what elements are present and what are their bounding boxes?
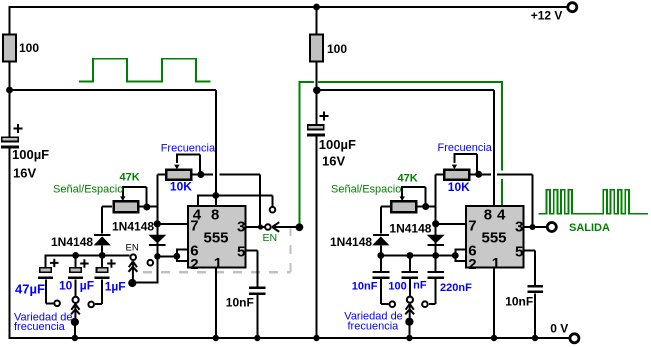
svg-text:10nF: 10nF	[352, 281, 378, 293]
potentiometer VR2 wiper arrowhead	[120, 196, 125, 201]
selector SW2 contact C7	[73, 297, 79, 303]
svg-text:47K: 47K	[120, 171, 140, 183]
wire: C6 leads	[45, 254, 53, 303]
junction node A left	[6, 87, 13, 94]
junction U1 pins 2-6 node	[173, 253, 180, 260]
svg-text:EN: EN	[126, 243, 139, 254]
wire: +12V top rail	[10, 6, 567, 8]
svg-text:5: 5	[515, 244, 523, 261]
junction VR2 wiper-terminal	[143, 204, 150, 211]
wire: U2 pin 1 to ground rail	[493, 268, 495, 338]
selector SW3 contact C10	[407, 297, 413, 303]
wire: pot VR2 wiper link	[122, 187, 147, 207]
junction C12 on ground rail	[532, 335, 538, 341]
svg-text:1µF: 1µF	[105, 279, 126, 293]
svg-text:frecuencia: frecuencia	[348, 320, 400, 332]
junction SW2 EN pivot	[128, 279, 136, 287]
junction EN blade pivot (green node)	[296, 223, 304, 231]
diode D2 1N4148	[148, 235, 166, 246]
wire: D1 lower lead	[101, 246, 103, 256]
svg-text:8: 8	[484, 206, 492, 223]
svg-text:1N4148: 1N4148	[389, 222, 431, 236]
svg-text:7: 7	[468, 218, 476, 235]
svg-text:220nF: 220nF	[440, 282, 472, 294]
wire: pot VR1 right lead to pin3 drop (hop over x=215.8)	[192, 175, 260, 228]
wire: C8 leads	[95, 255, 102, 304]
switch SW1a spare contact	[148, 260, 154, 266]
wire: timing capacitor bus C9 C10 C11	[381, 255, 456, 257]
svg-text:2: 2	[190, 256, 198, 273]
svg-text:Frecuencia: Frecuencia	[438, 142, 493, 154]
junction VR3 wiper-terminal	[475, 171, 482, 178]
svg-text:100: 100	[19, 41, 39, 55]
svg-text:1: 1	[492, 255, 500, 272]
junction D3/C9 on capacitor bus	[377, 252, 384, 259]
op-amp U1 555 timer body	[188, 206, 246, 268]
diode D3 1N4148	[372, 234, 389, 246]
wire: EN switch blade SW1b	[272, 222, 299, 232]
svg-text:frecuencia: frecuencia	[14, 321, 66, 333]
svg-text:100µF: 100µF	[319, 137, 356, 152]
wire: U1 pins 6 and 2 link	[157, 249, 188, 262]
wire: timing node vertical x=157 (pot VR1 left to D2 to switch pivot)	[132, 175, 157, 284]
resistor R2 100	[310, 35, 323, 62]
potentiometer VR2 47K body	[114, 201, 139, 212]
terminal 0V	[570, 334, 579, 343]
svg-text:5: 5	[237, 244, 245, 261]
switch SW1b throw contact (pins 4-8)	[270, 207, 276, 213]
wire: green link U1 pin3 to U2 pin4	[298, 81, 502, 227]
wire: left vertical rail lower (C1 to 0V rail)	[9, 148, 11, 339]
capacitor C1 100uF plates	[1, 137, 19, 148]
junction D1/C8 on capacitor bus	[99, 252, 106, 259]
selector SW2 contact C6	[54, 301, 60, 307]
wire: pot VR3 left lead and timing vertical x=435.7	[436, 174, 444, 255]
selector SW3 contact C11	[422, 301, 428, 307]
svg-text:1N4148: 1N4148	[330, 235, 372, 249]
wire: pot VR1 wiper link	[176, 155, 200, 175]
svg-text:SALIDA: SALIDA	[569, 222, 610, 234]
capacitor C12 10nF plates	[528, 285, 543, 293]
svg-text:555: 555	[482, 230, 507, 247]
selector SW2 arm arrow	[71, 304, 80, 322]
diode D1 1N4148	[94, 234, 111, 246]
wire: D3 lower lead	[380, 246, 382, 256]
wire: pot VR3 right lead to U2 pin3 drop (hops over x=493.8)	[470, 174, 533, 227]
capacitor C11 220nF plates	[427, 271, 444, 279]
svg-text:555: 555	[204, 230, 229, 247]
capacitor C6 polarity plus	[50, 259, 58, 267]
potentiometer VR3 10K body	[444, 170, 469, 180]
junction selector SW3 pivot	[405, 318, 413, 326]
wire: U1 pin 8 stub	[215, 196, 217, 207]
junction selector SW2 pivot	[71, 318, 79, 326]
switch SW1a EN contact	[130, 254, 136, 260]
terminal +12V	[568, 3, 577, 12]
wire: U1 pin 5 to C5	[246, 250, 258, 286]
capacitor C8 polarity plus	[107, 259, 115, 267]
junction U2 pin 7 node	[432, 220, 439, 227]
potentiometer VR1 wiper arrowhead	[174, 165, 179, 170]
wire: C11 leads	[429, 256, 436, 305]
svg-text:2: 2	[468, 256, 476, 273]
wire: U2 pin 5 to C12 and ground	[524, 250, 535, 338]
potentiometer VR3 wiper arrowhead	[452, 165, 457, 170]
selector SW3 arm arrow	[405, 304, 414, 322]
svg-text:4: 4	[497, 206, 506, 223]
svg-text:1N4148: 1N4148	[51, 235, 93, 249]
svg-text:3: 3	[237, 219, 245, 236]
wire: pot VR1 left lead	[157, 174, 166, 176]
svg-text:Señal/Espacio: Señal/Espacio	[331, 183, 401, 195]
junction C7 on capacitor bus	[72, 252, 79, 259]
junction node top rail / R2	[313, 4, 320, 11]
junction C5 on ground rail	[254, 335, 260, 341]
wire: C9 leads	[381, 256, 389, 305]
svg-text:10K: 10K	[170, 180, 192, 194]
wire: node B horizontal y=90 to U2 pin 8	[317, 90, 494, 206]
switch SW1b throw contact (pin 3 EN)	[265, 224, 271, 230]
wire: U1 pin 1 to ground rail	[215, 268, 217, 338]
svg-text:10nF: 10nF	[505, 294, 533, 308]
wire: U1 pins 4-8 header and EN throw drop	[197, 196, 272, 207]
potentiometer VR1 10K body	[166, 170, 191, 180]
wire: selector SW2 arm stem	[74, 322, 76, 338]
capacitor C9 10nF plates	[373, 271, 390, 279]
junction C2 on ground rail	[313, 335, 319, 341]
svg-text:10nF: 10nF	[226, 295, 254, 309]
potentiometer VR4 wiper arrowhead	[400, 196, 405, 201]
svg-text:1: 1	[214, 255, 222, 272]
selector SW3 contact C9	[390, 301, 396, 307]
capacitor C2 polarity plus	[320, 112, 329, 121]
capacitor C7 polarity plus	[80, 259, 88, 267]
svg-text:1N4148: 1N4148	[112, 220, 154, 234]
junction selector SW2 on ground rail	[72, 335, 78, 341]
wire: pot VR2 left lead to D1	[102, 207, 112, 234]
diode D4 1N4148	[427, 235, 445, 246]
svg-text:47µF: 47µF	[15, 281, 45, 296]
wire: U2 pin 7	[436, 223, 466, 225]
resistor R2 leads	[316, 7, 318, 90]
junction U2 pins 2-6 node	[452, 252, 459, 259]
wire: C2 leads and drop to ground	[316, 90, 318, 338]
svg-text:16V: 16V	[13, 165, 36, 180]
junction U1 pins 4-8	[212, 192, 219, 199]
capacitor C10 100nF plates	[402, 271, 419, 279]
junction U1 pins 2-6 node left	[154, 253, 160, 259]
capacitor C7 10uF plates	[68, 268, 83, 279]
svg-text:3: 3	[515, 219, 523, 236]
wire: U1 pin 3 to EN switch	[246, 226, 265, 228]
wire: pot VR4 left lead to D3	[381, 207, 390, 234]
potentiometer VR4 47K body	[391, 201, 416, 212]
svg-text:Frecuencia: Frecuencia	[161, 142, 216, 154]
capacitor C6 47uF plates	[38, 268, 53, 279]
svg-text:10K: 10K	[448, 180, 470, 194]
svg-text:Señal/Espacio: Señal/Espacio	[53, 183, 123, 195]
svg-text:EN: EN	[263, 232, 278, 244]
wire: C10 leads	[409, 256, 411, 297]
junction U2 pin1 on ground rail	[491, 335, 497, 341]
wire: pot VR4 right lead	[417, 206, 435, 208]
svg-text:8: 8	[211, 206, 219, 223]
junction VR1 wiper-terminal	[197, 171, 204, 178]
junction D4/C11 on capacitor bus	[432, 252, 439, 259]
junction VR3 drop on U2 pin3 wire	[530, 224, 536, 230]
svg-text:100: 100	[327, 42, 347, 56]
switch SW1a arm arrow	[129, 261, 138, 283]
svg-text:47K: 47K	[398, 173, 418, 185]
svg-text:nF: nF	[413, 280, 427, 292]
junction VR4 wiper-terminal	[422, 203, 429, 210]
capacitor C2 100uF plates	[307, 125, 325, 137]
wire: timing capacitor bus C6 C7 C8	[45, 254, 129, 256]
resistor R1 100	[3, 35, 16, 62]
wire: pot VR4 wiper link	[401, 187, 426, 207]
junction C10 on capacitor bus	[407, 252, 414, 259]
wire: U2 pin 3 to SALIDA terminal	[524, 226, 547, 228]
svg-text:+12 V: +12 V	[531, 9, 563, 23]
wire: C7 leads	[75, 255, 77, 296]
wire: U1 pin 7	[157, 223, 188, 225]
svg-text:0 V: 0 V	[550, 321, 568, 335]
capacitor C8 1uF plates	[95, 268, 110, 279]
junction U1 pin 7 node	[154, 220, 161, 227]
wire: 0V bottom rail	[9, 337, 570, 339]
selector SW2 contact C8	[88, 302, 94, 308]
svg-text:100: 100	[388, 281, 406, 293]
svg-text:100µF: 100µF	[12, 147, 49, 162]
junction node B (R2 / C2 / U2 supply)	[313, 87, 321, 95]
wire: node A horizontal y=90 to 555 U1 supply	[10, 90, 216, 196]
wire: selector SW3 arm stem	[408, 322, 410, 338]
wire: pot VR3 wiper link	[453, 154, 477, 174]
junction U1 pin1 on ground rail	[213, 335, 219, 341]
junction selector SW3 on ground rail	[406, 335, 412, 341]
wire: left vertical rail upper (R1 leads)	[9, 6, 11, 137]
dashed mechanical link between EN switch sections	[143, 229, 291, 273]
junction VR1 drop on pin3 wire	[258, 224, 263, 229]
capacitor C1 polarity plus	[14, 124, 23, 133]
svg-text:7: 7	[190, 218, 198, 235]
wire: pot VR2 right lead	[139, 206, 157, 208]
op-amp U2 555 timer body	[466, 206, 524, 268]
waveform square wave U1 output	[79, 59, 211, 82]
waveform PWM output SALIDA	[538, 190, 648, 214]
terminal SALIDA	[547, 223, 556, 232]
capacitor C5 10nF plates	[249, 287, 265, 295]
wire: C5 lower lead	[256, 295, 258, 338]
svg-text:µF: µF	[80, 278, 94, 292]
wire: U2 pins 6 and 2 link	[455, 249, 466, 262]
svg-text:10: 10	[59, 278, 73, 292]
svg-text:16V: 16V	[322, 154, 345, 169]
